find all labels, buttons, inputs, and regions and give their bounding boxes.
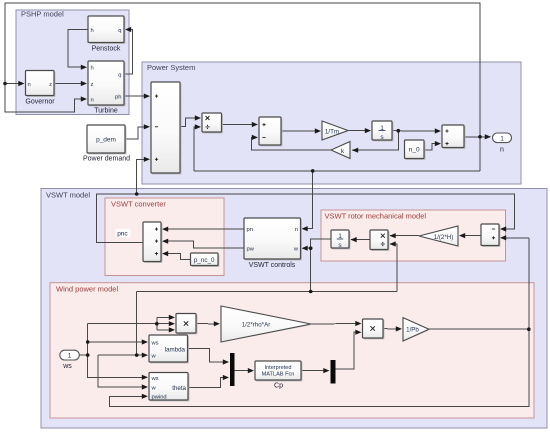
block constant n_0: [405, 140, 426, 160]
port labels Turbine h z n q ph: [91, 66, 122, 104]
svg-text:h: h: [91, 66, 94, 72]
block Penstock: [88, 16, 125, 53]
svg-text:VSWT rotor mechanical model: VSWT rotor mechanical model: [325, 212, 427, 221]
product symbols x divide: [206, 116, 210, 129]
wire ws out to junction: [79, 354, 87, 356]
svg-text:VSWT model: VSWT model: [46, 191, 90, 200]
node w input junction: [309, 246, 313, 250]
area box VSWT model: [41, 189, 547, 429]
wire n into Governor: [5, 83, 22, 85]
svg-text:Power demand: Power demand: [83, 156, 130, 163]
wire rotor 1/s out w: [303, 239, 331, 248]
area box VSWT converter: [105, 198, 224, 276]
gain 1/2*rho*Ar: [221, 306, 311, 342]
outport oval n: [493, 133, 512, 153]
svg-text:Cp: Cp: [274, 382, 283, 389]
svg-text:z: z: [91, 82, 94, 88]
wire w branch to theta w: [98, 355, 146, 387]
gain k (flipped): [331, 142, 350, 159]
wire theta to mux: [188, 378, 227, 388]
block p_dem constant: [83, 125, 130, 163]
wire w drop to lambda: [136, 292, 138, 356]
block converter sum (flipped): [143, 222, 162, 263]
wire 1/Tm out to 1/s: [348, 130, 370, 132]
svg-text:1/Pb: 1/Pb: [406, 327, 419, 334]
svg-text:VSWT converter: VSWT converter: [111, 200, 166, 209]
svg-text:ws: ws: [151, 341, 159, 347]
sum3 signs + +: [445, 129, 448, 145]
area box PSHP model: [16, 10, 129, 115]
block sum3: [442, 125, 465, 149]
svg-text:q: q: [118, 73, 121, 79]
svg-text:1: 1: [500, 135, 504, 142]
wire product out to sum2: [222, 123, 257, 125]
signal label pnc: [116, 229, 131, 238]
svg-text:w: w: [293, 247, 299, 253]
area box VSWT rotor mechanical model: [321, 210, 506, 261]
svg-text:Turbine: Turbine: [94, 108, 118, 115]
svg-text:n: n: [295, 227, 298, 233]
wire w to rotor product div: [390, 244, 397, 292]
wire big gain to x2: [311, 323, 360, 326]
svg-text:n: n: [91, 98, 94, 104]
wire ws to x3 mid: [88, 323, 173, 325]
lambda port labels: [151, 341, 186, 360]
gain 1/Pb: [403, 318, 429, 341]
svg-text:pnc: pnc: [117, 231, 128, 238]
wire x3 to big gain: [196, 323, 218, 325]
wire mux to Cp: [235, 370, 253, 372]
block theta fcn: [149, 373, 189, 402]
port labels Governor n z: [28, 82, 53, 88]
Interpreted MATLAB Fcn text: [262, 365, 295, 378]
svg-text:p_nc_0: p_nc_0: [194, 257, 215, 264]
block product ws cubed: [176, 314, 197, 335]
wire pnc to sum plus: [137, 159, 148, 194]
port labels Penstock h q: [91, 28, 122, 34]
demux bar: [331, 360, 336, 384]
svg-text:VSWT controls: VSWT controls: [249, 262, 296, 269]
svg-text:w: w: [151, 354, 157, 360]
node w lambda junction: [135, 353, 139, 357]
wire 1/Pb out to pb node: [429, 328, 529, 330]
wire x2 to 1/Pb: [383, 328, 400, 330]
node n-governor junction: [3, 82, 7, 86]
node pb junction: [527, 327, 531, 331]
product x label: [184, 321, 188, 325]
wire 1/(2H) to rotor product: [390, 235, 419, 237]
block product x2: [363, 319, 385, 339]
converter sum signs: [155, 228, 158, 256]
product x2 label: [371, 326, 375, 330]
wire p_nc_0 to converter sum: [163, 254, 191, 260]
svg-text:q: q: [118, 28, 121, 34]
block Governor: [25, 71, 55, 106]
svg-text:n_0: n_0: [409, 147, 420, 154]
theta port labels: [151, 376, 187, 401]
block integrator 1/s: [372, 121, 393, 141]
svg-text:theta: theta: [172, 385, 186, 392]
wire pn to converter sum: [163, 228, 244, 230]
wire n down into VSWT: [303, 171, 313, 229]
arrowheads into blocks: [18, 27, 506, 399]
wire w down: [310, 248, 312, 291]
wire Turbine q to Penstock q: [124, 30, 133, 75]
wire pb to rotor sum plus: [501, 237, 529, 239]
svg-text:ws: ws: [62, 363, 72, 370]
wire demux to x2: [336, 332, 361, 369]
block Interpreted MATLAB Fcn Cp: [255, 361, 302, 389]
svg-text:Power System: Power System: [147, 63, 195, 72]
svg-text:1/(2*H): 1/(2*H): [434, 234, 454, 241]
svg-text:1: 1: [68, 353, 72, 360]
wire n feedback to product div: [194, 127, 199, 171]
svg-text:PSHP model: PSHP model: [21, 10, 64, 19]
wire ws to lambda ws: [88, 341, 146, 343]
wire sum2 out to 1/Tm: [281, 130, 320, 132]
gain 1/Tm: [322, 121, 348, 140]
wire w horizontal: [137, 291, 397, 293]
wire k out to sum2 minus: [251, 137, 331, 150]
svg-text:w: w: [151, 385, 157, 391]
svg-text:ws: ws: [151, 376, 159, 382]
sum signs + - +: [155, 95, 158, 161]
rotor product symbols: [381, 234, 385, 246]
svg-text:n: n: [28, 82, 31, 88]
mux bar: [230, 353, 235, 386]
svg-text:z: z: [49, 82, 52, 88]
wire p_dem to sum minus: [125, 127, 148, 139]
wire n feedback top loop: [5, 3, 480, 171]
block lambda fcn: [149, 335, 189, 363]
node n output junction: [478, 135, 482, 139]
block rotor product divide (flipped): [370, 230, 389, 251]
wire pwind wire: [110, 329, 529, 406]
svg-text:Penstock: Penstock: [92, 46, 121, 53]
inport oval ws: [60, 350, 80, 370]
svg-text:Interpreted: Interpreted: [264, 365, 291, 371]
svg-text:pw: pw: [247, 247, 255, 253]
wire ws down branch: [88, 355, 146, 377]
node integrator output junction: [397, 129, 401, 133]
svg-text:Wind power model: Wind power model: [56, 285, 118, 294]
block sum2: [259, 117, 282, 146]
wire 1s junction down to k: [352, 131, 398, 151]
svg-text:ph: ph: [115, 95, 121, 101]
svg-text:pwind: pwind: [152, 395, 167, 401]
svg-text:1/2*rho*Ar: 1/2*rho*Ar: [242, 322, 271, 329]
wire x3 jog top: [157, 316, 173, 318]
wire sum out to product x: [180, 118, 199, 127]
wire Cp to demux: [301, 370, 328, 372]
rotor integrator fraction: [337, 233, 343, 249]
wire Penstock h to Turbine h: [68, 30, 88, 68]
wire x3 jog bottom: [157, 329, 173, 331]
block Turbine: [88, 61, 125, 115]
svg-text:MATLAB Fcn: MATLAB Fcn: [262, 372, 295, 378]
wire w branch to lambda w: [98, 354, 146, 356]
port labels VSWT controls pn pw n w: [247, 227, 299, 252]
svg-text:pn: pn: [247, 227, 253, 233]
node x3 input junction: [155, 322, 159, 326]
wire n_0 out to sum3: [424, 144, 439, 150]
wire 1/s out to sum3: [392, 130, 439, 132]
node n junction for VSWT: [311, 169, 315, 173]
node w line junction: [309, 290, 313, 294]
wire Governor z to Turbine z: [54, 83, 85, 85]
integrator fraction text: [379, 125, 386, 141]
wire rotor sum to 1/(2H): [460, 235, 481, 237]
svg-text:n: n: [500, 146, 504, 153]
wire pnc long wire: [97, 194, 515, 242]
block rotor integrator 1/s: [331, 230, 350, 249]
wire x3 jog vertical: [156, 317, 158, 330]
sum2 signs + -: [262, 123, 265, 137]
wire lambda to mux: [188, 349, 228, 363]
wire rotor product to 1/s: [351, 239, 370, 241]
svg-text:Governor: Governor: [25, 99, 55, 106]
svg-text:h: h: [91, 28, 94, 34]
wire pb vertical up: [528, 238, 530, 329]
wire ws up branch: [87, 324, 89, 355]
wire n feedback lower: [194, 170, 480, 172]
block product divide U1: [202, 113, 223, 133]
node pnc junction: [135, 192, 139, 196]
block rotor sum (flipped): [481, 224, 500, 247]
rotor sum signs: [492, 229, 495, 239]
block sum Power System: [151, 82, 181, 174]
wire pw to converter sum: [163, 241, 244, 248]
wire n down to Turbine n: [5, 84, 85, 112]
gain 1/(2*H) (flipped): [419, 226, 458, 246]
wire Turbine ph to sum: [124, 95, 148, 97]
svg-text:p_dem: p_dem: [96, 137, 116, 144]
area box Power System: [142, 62, 521, 184]
block VSWT controls: [244, 218, 302, 269]
svg-text:lambda: lambda: [165, 346, 186, 353]
wire sum3 out to outport n: [464, 136, 490, 138]
node ws branch junction: [86, 353, 90, 357]
block constant p_nc_0: [191, 253, 220, 267]
svg-text:1/Tm: 1/Tm: [325, 128, 339, 135]
node ws lambda junction: [86, 340, 90, 344]
area box Wind power model: [50, 283, 534, 418]
